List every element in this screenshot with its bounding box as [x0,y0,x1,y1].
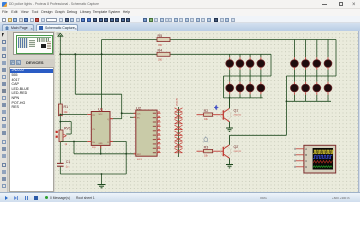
IC U1 555 [87,106,113,154]
wire node CV/RST [74,153,136,155]
power terminal 5V [57,32,63,41]
resistor R3 [197,146,224,158]
lamp L1 [226,60,234,68]
lamp L2 [236,60,244,68]
lamp L5 [226,84,234,92]
svg-text:U1: U1 [98,106,104,111]
title bar [0,0,360,9]
diode D8 1N4148 [175,148,183,152]
svg-text:1N4148: 1N4148 [177,98,179,106]
svg-text:RV1: RV1 [64,127,71,131]
diode D4 1N4148 [175,125,183,129]
svg-text:Q1: Q1 [234,109,239,113]
IC U2 4017 [130,105,157,161]
resistor R1 [58,104,68,116]
svg-text:4017: 4017 [137,159,143,161]
resistor R4 [157,49,170,62]
status bar [0,192,360,202]
oscilloscope [294,145,335,173]
diode D6 1N4148 [175,137,183,141]
wire group1 midbus [224,54,272,84]
svg-text:R3: R3 [204,146,209,150]
wire clock route [75,54,136,118]
tab bar [0,23,360,31]
svg-text:U2: U2 [136,105,142,110]
svg-text:R2: R2 [204,109,209,113]
left panel [8,31,55,192]
wire group2 midbus [286,67,336,84]
wire bottom net [60,154,126,174]
capacitor C1 [57,160,70,169]
svg-text:Q2: Q2 [234,145,239,149]
svg-text:B: B [305,153,307,157]
lamp L3 [246,60,254,68]
wire diode chain [177,98,179,157]
svg-text:C: C [305,159,307,163]
wire group2 feed [294,40,336,77]
wire group1 bottom bus [224,76,263,108]
lamp L9 [291,60,299,68]
svg-text:5V: 5V [57,32,60,36]
svg-text:330: 330 [158,59,163,62]
toolbar [0,16,360,23]
svg-text:VCC: VCC [99,114,104,116]
svg-text:D: D [305,165,307,169]
diode D7 1N4148 [175,143,183,147]
resistor R2 [197,109,224,121]
wire net VCC-A [102,39,336,41]
lamp L14 [302,84,310,92]
right window edge strip [358,31,360,192]
menu bar [0,9,360,16]
diode D1 1N4148 [175,108,183,112]
transistor Q2 [221,135,242,164]
lamp L4 [257,60,265,68]
wire RV1 to U1 [61,141,87,154]
wire group2 bottom bus [230,76,332,135]
svg-text:R5: R5 [158,34,163,38]
wire group1 feed [230,54,261,59]
wire left rail [59,40,61,174]
wire U1 VCC riser [101,40,103,112]
voltage probe marker [214,105,218,109]
potentiometer RV1 [56,127,71,147]
svg-text:2N2222: 2N2222 [234,151,242,153]
diode D3 1N4148 [175,119,183,123]
lamp L15 [313,84,321,92]
wire RV1 wiper [59,121,71,134]
lamp L7 [246,84,254,92]
lamp L12 [324,60,332,68]
lamp L10 [302,60,310,68]
lamp L11 [313,60,321,68]
svg-text:C1: C1 [66,160,71,164]
left tool strip [0,31,8,192]
svg-text:GND: GND [98,143,103,145]
diode D5 1N4148 [175,131,183,135]
lamp L8 [257,84,265,92]
wire U1 pin5 [110,141,126,153]
svg-text:R1: R1 [64,105,69,109]
lamp L6 [236,84,244,92]
diode D2 1N4148 [175,114,183,118]
transistor Q1 [221,98,242,128]
U2 output pins [157,111,160,152]
schematic area (SVG) [55,31,360,192]
svg-text:2N2222: 2N2222 [234,115,242,117]
svg-text:A: A [305,147,307,151]
resistor R5 [157,34,170,47]
svg-text:330: 330 [158,44,163,47]
wire node TR [59,114,87,116]
lamp L13 [291,84,299,92]
wire net VCC-B [59,53,271,55]
lamp L16 [324,84,332,92]
ground Q1 [226,128,233,131]
ground Q2 [226,165,233,168]
lamp indicator icon [203,136,208,142]
svg-text:R4: R4 [158,49,163,53]
ground main [98,173,106,188]
